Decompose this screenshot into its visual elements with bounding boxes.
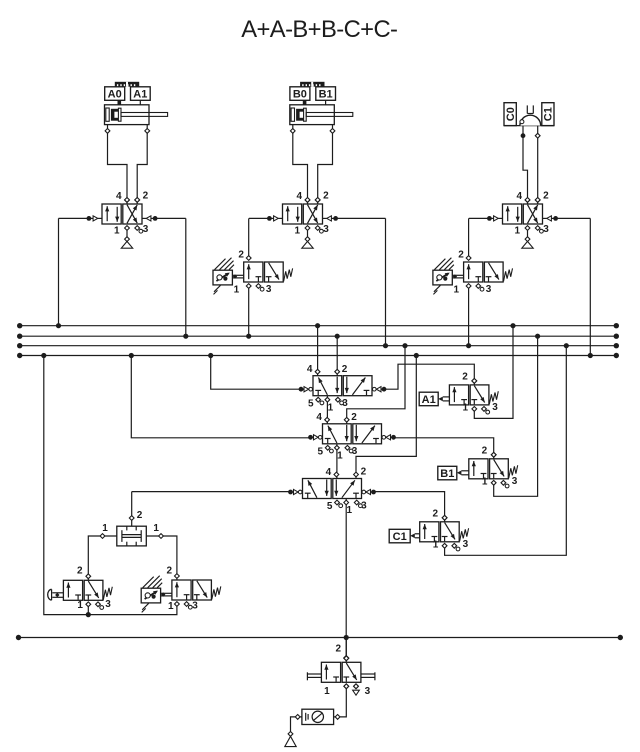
- svg-text:C1: C1: [543, 107, 555, 121]
- svg-text:1: 1: [482, 476, 488, 487]
- svg-text:2: 2: [137, 510, 143, 521]
- svg-text:1: 1: [324, 686, 330, 697]
- svg-text:C0: C0: [505, 107, 517, 121]
- svg-text:1: 1: [168, 601, 174, 612]
- svg-text:4: 4: [307, 364, 313, 375]
- svg-text:1: 1: [433, 539, 439, 550]
- svg-text:3: 3: [486, 284, 492, 295]
- svg-text:A+A-B+B-C+C-: A+A-B+B-C+C-: [241, 16, 397, 43]
- svg-text:5: 5: [327, 501, 333, 512]
- svg-text:A1: A1: [422, 394, 436, 406]
- svg-text:1: 1: [114, 225, 120, 236]
- svg-text:4: 4: [296, 191, 302, 202]
- svg-text:4: 4: [116, 191, 122, 202]
- svg-text:3: 3: [463, 539, 469, 550]
- svg-text:1: 1: [294, 225, 300, 236]
- svg-text:1: 1: [337, 450, 343, 461]
- svg-text:3: 3: [192, 600, 198, 611]
- svg-text:2: 2: [143, 191, 149, 202]
- svg-text:2: 2: [351, 412, 357, 423]
- svg-text:1: 1: [153, 523, 159, 534]
- svg-text:2: 2: [336, 644, 342, 655]
- svg-text:2: 2: [342, 364, 348, 375]
- svg-text:B0: B0: [293, 88, 307, 100]
- svg-text:2: 2: [543, 191, 549, 202]
- svg-text:3: 3: [323, 224, 329, 235]
- svg-text:2: 2: [462, 372, 468, 383]
- svg-text:3: 3: [512, 476, 518, 487]
- svg-text:2: 2: [433, 509, 439, 520]
- svg-text:B1: B1: [319, 88, 333, 100]
- svg-text:2: 2: [167, 566, 173, 577]
- svg-text:2: 2: [77, 565, 83, 576]
- svg-text:4: 4: [516, 191, 522, 202]
- svg-text:1: 1: [77, 600, 83, 611]
- svg-text:2: 2: [361, 467, 367, 478]
- svg-text:C1: C1: [393, 531, 407, 543]
- svg-text:3: 3: [365, 686, 371, 697]
- svg-text:1: 1: [462, 403, 468, 414]
- svg-text:4: 4: [316, 412, 322, 423]
- svg-text:A0: A0: [108, 88, 122, 100]
- svg-text:4: 4: [326, 467, 332, 478]
- svg-text:5: 5: [308, 398, 314, 409]
- svg-text:2: 2: [482, 446, 488, 457]
- svg-text:3: 3: [492, 402, 498, 413]
- svg-text:3: 3: [543, 224, 549, 235]
- svg-text:2: 2: [238, 250, 244, 261]
- svg-text:2: 2: [458, 250, 464, 261]
- svg-text:1: 1: [328, 402, 334, 413]
- svg-text:1: 1: [102, 523, 108, 534]
- svg-text:5: 5: [318, 446, 324, 457]
- svg-text:3: 3: [105, 599, 111, 610]
- svg-text:1: 1: [346, 505, 352, 516]
- svg-text:1: 1: [234, 285, 240, 296]
- svg-text:1: 1: [454, 285, 460, 296]
- svg-text:B1: B1: [440, 468, 454, 480]
- svg-text:3: 3: [143, 224, 149, 235]
- svg-text:2: 2: [323, 191, 329, 202]
- svg-text:1: 1: [514, 225, 520, 236]
- svg-text:3: 3: [266, 284, 272, 295]
- svg-text:A1: A1: [133, 88, 147, 100]
